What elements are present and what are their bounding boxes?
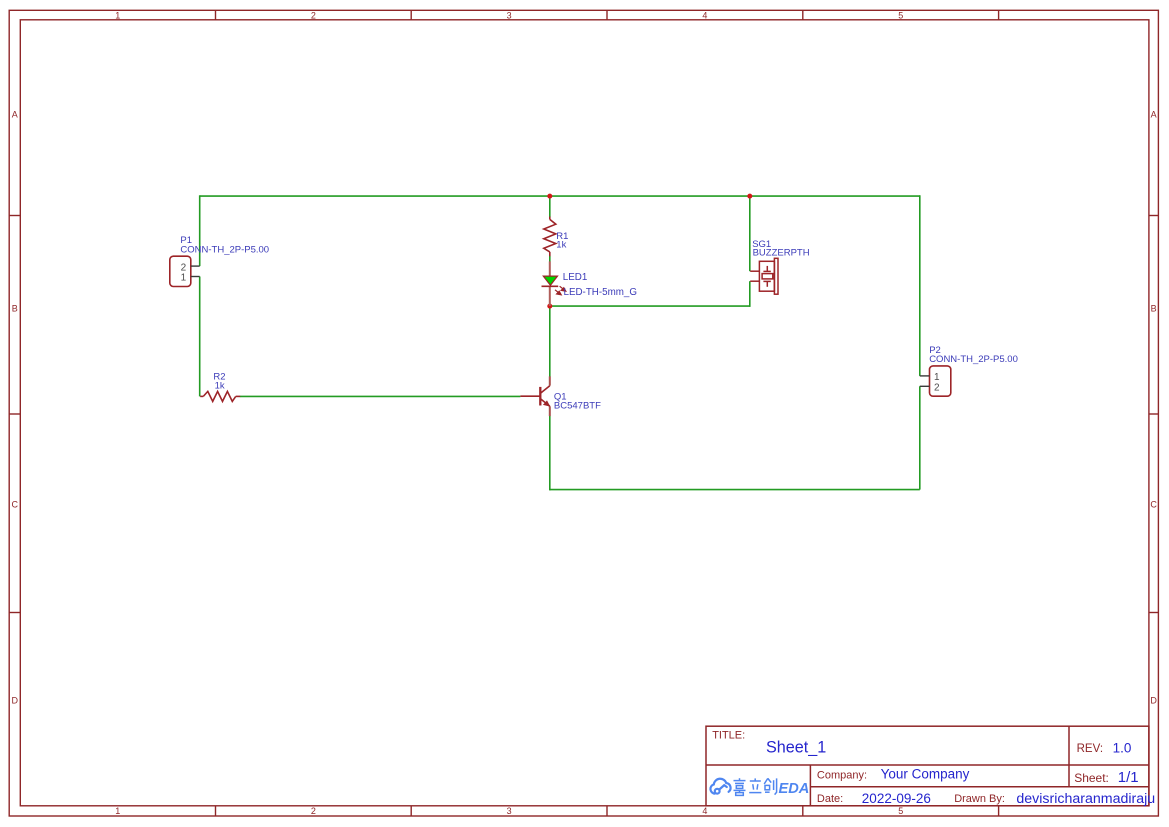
wire right vertical upper (top rail to P2 pin1) (919, 195, 921, 376)
junction node at buzzer top (747, 194, 752, 199)
svg-text:C: C (12, 499, 19, 509)
logo char 创 (764, 778, 776, 794)
svg-text:TITLE:: TITLE: (712, 729, 745, 741)
junction node at LED cathode (547, 304, 552, 309)
svg-text:1.0: 1.0 (1113, 741, 1132, 756)
svg-text:Company:: Company: (817, 770, 867, 782)
svg-text:REV:: REV: (1077, 743, 1103, 755)
title block logo cell divider (809, 765, 811, 806)
logo char 嘉 (734, 778, 746, 795)
wire right vertical lower (P2 pin2 to bottom rail) (919, 386, 921, 489)
logo cloud icon (710, 779, 730, 794)
svg-text:3: 3 (507, 10, 512, 20)
LED1 emission arrow 1 (560, 286, 566, 291)
svg-text:2: 2 (181, 262, 187, 273)
svg-text:Date:: Date: (817, 793, 843, 805)
svg-text:B: B (12, 303, 18, 313)
P1 pin 2 stub (191, 265, 200, 267)
svg-text:2: 2 (934, 383, 940, 394)
wire R1 to LED1 (549, 256, 551, 262)
frame column ticks bottom (216, 806, 999, 816)
LED1 cathode bar (542, 285, 559, 287)
svg-text:5: 5 (898, 10, 903, 20)
wire top rail (200, 195, 920, 197)
wire Q1 emitter to bottom rail (549, 416, 551, 491)
svg-text:Sheet:: Sheet: (1074, 771, 1109, 785)
svg-text:5: 5 (898, 806, 903, 816)
resistor R2 (200, 391, 240, 401)
svg-text:C: C (1150, 499, 1157, 509)
wire LED node to buzzer branch (550, 305, 750, 307)
LED D1 pins (549, 261, 551, 306)
buzzer SG1 sounding plate (774, 258, 778, 294)
svg-text:A: A (12, 109, 18, 119)
P1 pin 1 stub (191, 276, 200, 278)
resistor R1 (544, 217, 556, 257)
svg-text:BC547BTF: BC547BTF (554, 401, 601, 412)
svg-text:Drawn By:: Drawn By: (954, 793, 1005, 805)
svg-text:1/1: 1/1 (1118, 769, 1139, 786)
svg-text:2: 2 (311, 806, 316, 816)
connector P1 body (170, 256, 191, 286)
svg-text:1: 1 (115, 806, 120, 816)
connector P2 body (930, 366, 951, 396)
wire top rail to R1 (549, 196, 551, 217)
svg-text:LED1: LED1 (563, 272, 588, 283)
svg-text:1: 1 (115, 10, 120, 20)
svg-text:2022-09-26: 2022-09-26 (862, 791, 931, 806)
svg-text:LED-TH-5mm_G: LED-TH-5mm_G (564, 287, 637, 298)
SG1 pin 2 stub (750, 280, 759, 282)
svg-text:1: 1 (934, 372, 940, 383)
wire buzzer pin1 to top rail (749, 196, 751, 271)
wire left vertical upper (P1 pin2 to top rail) (199, 195, 201, 266)
wire bottom rail (550, 489, 920, 491)
svg-text:2: 2 (311, 10, 316, 20)
title block rev/sheet column divider (1068, 726, 1070, 787)
frame row ticks left (9, 216, 20, 613)
frame column ticks top (216, 10, 999, 19)
svg-text:BUZZERPTH: BUZZERPTH (753, 247, 810, 258)
svg-text:Sheet_1: Sheet_1 (766, 738, 826, 756)
svg-text:1: 1 (181, 273, 187, 284)
svg-text:CONN-TH_2P-P5.00: CONN-TH_2P-P5.00 (929, 354, 1018, 365)
wire buzzer pin2 vertical (749, 281, 751, 307)
svg-text:D: D (1150, 695, 1157, 705)
logo char 立 (749, 778, 761, 792)
title block outline (706, 726, 1149, 806)
SG1 internal piezo element (762, 266, 773, 287)
svg-text:4: 4 (702, 806, 707, 816)
wire LED1 to Q1 collector (549, 306, 551, 377)
SG1 pin 1 stub (750, 270, 759, 272)
frame column labels top (115, 10, 903, 20)
svg-text:CONN-TH_2P-P5.00: CONN-TH_2P-P5.00 (180, 244, 269, 255)
svg-text:A: A (1151, 109, 1157, 119)
svg-text:Your Company: Your Company (881, 767, 970, 782)
svg-text:1k: 1k (556, 240, 566, 251)
svg-text:1k: 1k (215, 380, 225, 391)
buzzer SG1 body (759, 261, 774, 291)
title block company/date divider (810, 786, 1149, 788)
frame column labels bottom (115, 806, 903, 816)
svg-text:EDA: EDA (779, 781, 810, 797)
P2 pin 1 stub (920, 375, 930, 377)
transistor Q1 (520, 376, 549, 416)
svg-text:3: 3 (507, 806, 512, 816)
wire R2 to Q1 base (240, 395, 521, 397)
svg-text:D: D (12, 695, 19, 705)
wire left vertical lower (P1 pin1 to R2) (199, 277, 201, 397)
LED1 triangle (543, 276, 557, 285)
Q1 emitter arrow (543, 400, 550, 406)
frame row ticks right (1149, 216, 1159, 613)
frame row labels right (1150, 109, 1157, 705)
title block row divider (706, 764, 1149, 766)
svg-text:devisricharanmadiraju: devisricharanmadiraju (1016, 791, 1155, 807)
frame row labels left (12, 109, 19, 705)
svg-text:4: 4 (702, 10, 707, 20)
P2 pin 2 stub (920, 385, 930, 387)
junction node at R1 top (547, 194, 552, 199)
LED1 emission arrow 2 (555, 290, 561, 295)
svg-text:B: B (1151, 303, 1157, 313)
